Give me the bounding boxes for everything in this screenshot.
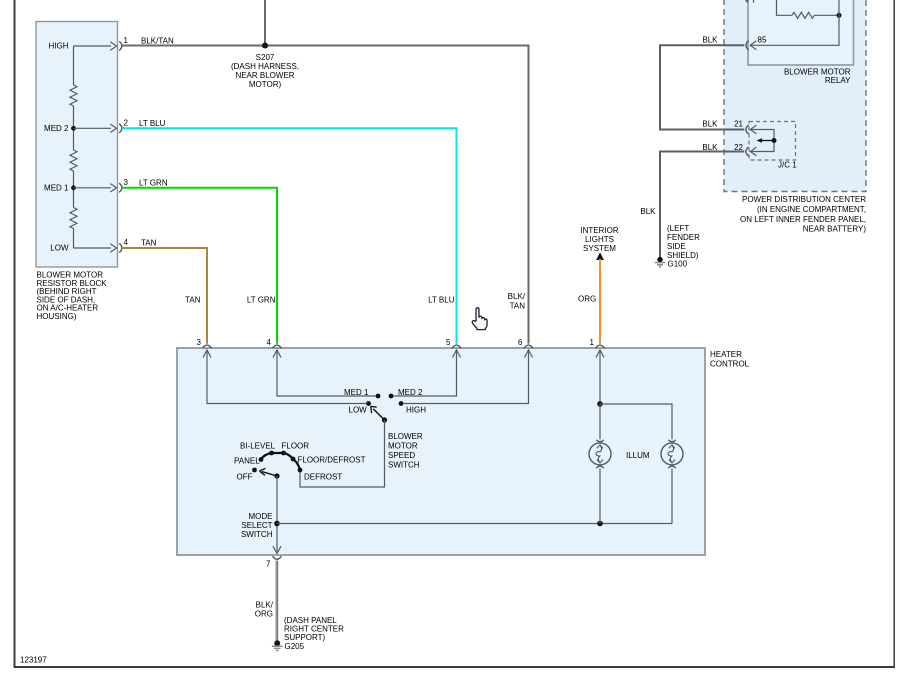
svg-text:2: 2 — [124, 119, 129, 128]
svg-text:BLK: BLK — [640, 207, 656, 216]
wire BLK from J/C 1 pin 22 to ground G100 — [660, 152, 744, 258]
wire BLK from relay pin 85 to J/C 1 pin 21 — [660, 45, 744, 129]
svg-text:ORG: ORG — [255, 610, 273, 619]
svg-text:85: 85 — [758, 36, 767, 45]
svg-text:5: 5 — [446, 338, 451, 347]
ground G100 — [655, 257, 665, 267]
wire mode select pivot down to pin 7 — [276, 476, 278, 552]
power distribution center caption — [740, 195, 866, 234]
pin 5 of heater control — [446, 338, 461, 358]
blower motor resistor block caption — [37, 271, 108, 322]
mode select blade — [262, 472, 277, 476]
contact PANEL — [259, 457, 264, 462]
wire relay junction down to pin 85 — [750, 0, 839, 45]
junction connector J/C 1 dashed box — [749, 122, 796, 161]
pin 1 of heater control — [590, 338, 605, 358]
svg-text:123197: 123197 — [20, 656, 47, 665]
resistor R3 (MED 1 to LOW) — [70, 208, 77, 229]
svg-text:4: 4 — [267, 338, 272, 347]
svg-text:HIGH: HIGH — [406, 406, 426, 415]
svg-text:LIGHTS: LIGHTS — [585, 235, 614, 244]
svg-text:HOUSING): HOUSING) — [37, 312, 77, 321]
svg-text:3: 3 — [124, 178, 129, 187]
contact FLOOR/DEFROST — [291, 457, 296, 462]
wire TAN from resistor block pin 4 to heater control pin 3 — [122, 248, 207, 344]
svg-text:MED 2: MED 2 — [44, 124, 69, 133]
svg-text:MODE: MODE — [249, 512, 273, 521]
svg-text:SYSTEM: SYSTEM — [583, 244, 616, 253]
mode select arc — [261, 453, 300, 470]
wire speed switch pivot to DEFROST contact — [300, 420, 385, 487]
contact MED 2 — [389, 394, 394, 399]
svg-text:LOW: LOW — [50, 244, 69, 253]
svg-text:(LEFT: (LEFT — [667, 224, 689, 233]
svg-text:BLK/: BLK/ — [508, 292, 526, 301]
svg-text:SUPPORT): SUPPORT) — [284, 633, 326, 642]
label G205 caption — [284, 616, 344, 651]
contact HIGH — [399, 401, 404, 406]
ground G205 — [272, 640, 283, 650]
svg-text:HIGH: HIGH — [49, 42, 69, 51]
svg-text:3: 3 — [197, 338, 202, 347]
svg-text:S207: S207 — [256, 53, 275, 62]
svg-text:G205: G205 — [285, 642, 305, 651]
wire lamp feed branches — [600, 404, 672, 439]
blower motor speed switch — [344, 388, 426, 470]
svg-text:BLOWER: BLOWER — [388, 432, 423, 441]
svg-text:LT GRN: LT GRN — [247, 296, 276, 305]
illumination lamp right — [661, 440, 683, 468]
wire BLK/ORG from pin 7 to ground G205 — [276, 561, 277, 641]
svg-text:TAN: TAN — [141, 239, 157, 248]
blower motor relay caption — [784, 68, 851, 86]
svg-text:SWITCH: SWITCH — [241, 530, 273, 539]
svg-text:SELECT: SELECT — [241, 521, 272, 530]
svg-text:4: 4 — [124, 238, 129, 247]
wire BLK/TAN from resistor block pin 1 to heater control pin 6 — [122, 46, 529, 344]
label HEATER CONTROL — [710, 350, 750, 369]
svg-text:BLK: BLK — [702, 36, 718, 45]
wire ORG from heater control pin 1 up to interior lights — [599, 259, 601, 344]
speed switch pivot — [382, 417, 387, 422]
svg-text:1: 1 — [590, 338, 595, 347]
svg-text:BI-LEVEL: BI-LEVEL — [240, 442, 276, 451]
label S207 caption — [231, 53, 299, 89]
pin 3 of heater control — [197, 338, 212, 358]
mode select pivot — [274, 473, 279, 478]
blower motor resistor block — [36, 22, 118, 268]
svg-text:SIDE: SIDE — [667, 242, 686, 251]
wire pin 5 to MED 2 contact — [393, 351, 457, 397]
pin 85 of relay — [746, 36, 767, 50]
relay top edge connector stub — [746, 0, 753, 3]
mode select switch — [234, 442, 366, 540]
resistor inside relay — [792, 12, 814, 18]
arrow to other circuits inside J/C 1 — [756, 138, 774, 143]
svg-text:G100: G100 — [668, 260, 688, 269]
svg-text:MED 2: MED 2 — [398, 388, 423, 397]
power distribution center dashed box — [724, 0, 866, 192]
svg-text:BLK: BLK — [702, 120, 718, 129]
label BLK/ORG — [255, 601, 274, 619]
svg-text:INTERIOR: INTERIOR — [580, 226, 618, 235]
svg-text:6: 6 — [518, 338, 523, 347]
contact OFF — [252, 468, 257, 473]
svg-text:PANEL: PANEL — [234, 457, 260, 466]
contact MED 1 — [376, 394, 381, 399]
junction at lamp feed — [597, 401, 603, 407]
svg-text:ON LEFT INNER FENDER PANEL,: ON LEFT INNER FENDER PANEL, — [740, 215, 866, 224]
wire illumination return bus — [277, 523, 672, 525]
svg-text:BLK/: BLK/ — [256, 601, 274, 610]
heater control box — [177, 348, 705, 555]
svg-text:21: 21 — [734, 120, 743, 129]
relay coil lead (cut off at top) — [777, 0, 793, 15]
pin MED 1 (3) — [44, 178, 128, 193]
svg-text:J/C 1: J/C 1 — [778, 161, 797, 170]
illumination lamp left — [589, 440, 611, 468]
svg-text:SWITCH: SWITCH — [388, 461, 420, 470]
svg-text:FLOOR: FLOOR — [282, 442, 310, 451]
svg-text:LT BLU: LT BLU — [428, 296, 455, 305]
svg-text:DEFROST: DEFROST — [304, 473, 342, 482]
svg-text:BLK/TAN: BLK/TAN — [141, 37, 174, 46]
wire lamps down to bus — [600, 469, 672, 524]
svg-text:CONTROL: CONTROL — [710, 360, 750, 369]
svg-text:(DASH HARNESS,: (DASH HARNESS, — [231, 62, 299, 71]
wire pin 3 to LOW contact — [207, 351, 366, 404]
label INTERIOR LIGHTS SYSTEM — [580, 226, 618, 253]
contact LOW — [366, 401, 371, 406]
junction MED 2 — [71, 126, 76, 131]
pin LOW (4) — [50, 238, 128, 253]
svg-text:LT GRN: LT GRN — [139, 179, 168, 188]
svg-text:MOTOR): MOTOR) — [249, 80, 282, 89]
wire pin 1 down to lamps — [599, 351, 601, 405]
svg-text:FENDER: FENDER — [667, 233, 700, 242]
speed switch blade — [373, 409, 384, 420]
svg-text:OFF: OFF — [237, 473, 253, 482]
svg-text:POWER DISTRIBUTION CENTER: POWER DISTRIBUTION CENTER — [742, 195, 866, 204]
svg-text:MOTOR: MOTOR — [388, 442, 418, 451]
svg-text:HEATER: HEATER — [710, 350, 742, 359]
wire stub up from splice S207 — [264, 0, 266, 46]
svg-text:RELAY: RELAY — [825, 76, 851, 85]
mouse cursor — [472, 308, 487, 330]
svg-text:LT BLU: LT BLU — [139, 119, 166, 128]
pin HIGH (1) — [49, 36, 129, 51]
blower motor relay box — [748, 0, 854, 65]
junction in relay — [837, 13, 842, 18]
wire pin 4 to MED 1 contact — [277, 351, 376, 397]
pin 6 of heater control — [518, 338, 533, 358]
svg-text:SPEED: SPEED — [388, 451, 415, 460]
svg-text:TAN: TAN — [185, 296, 201, 305]
pin 7 of heater control — [266, 546, 281, 568]
svg-text:MED 1: MED 1 — [344, 388, 369, 397]
label G100 caption — [667, 224, 700, 269]
contact FLOOR — [281, 451, 286, 456]
svg-text:FLOOR/DEFROST: FLOOR/DEFROST — [298, 456, 366, 465]
svg-text:7: 7 — [266, 560, 271, 569]
wire from resistor to junction — [814, 14, 839, 16]
svg-text:ILLUM: ILLUM — [626, 451, 650, 460]
svg-text:1: 1 — [124, 36, 129, 45]
junction at lamp bus — [597, 521, 603, 527]
contact BI-LEVEL — [269, 451, 274, 456]
pin 21 of J/C 1 — [734, 120, 756, 135]
svg-text:NEAR BLOWER: NEAR BLOWER — [235, 71, 294, 80]
svg-text:MED 1: MED 1 — [44, 184, 69, 193]
resistor R1 (HIGH to MED 2) — [70, 85, 77, 106]
wire LT BLU from resistor block pin 2 to heater control pin 5 — [122, 128, 457, 343]
svg-text:NEAR BATTERY): NEAR BATTERY) — [803, 225, 867, 234]
svg-text:LOW: LOW — [349, 406, 368, 415]
svg-text:ORG: ORG — [578, 295, 596, 304]
contact DEFROST — [298, 468, 303, 473]
wire internal bus of resistor block — [73, 46, 75, 248]
resistor R2 (MED 2 to MED 1) — [70, 150, 77, 171]
junction at mode select wire — [274, 521, 280, 527]
wire pin 6 to HIGH contact — [404, 351, 529, 404]
wire LT GRN from resistor block pin 3 to heater control pin 4 — [122, 188, 277, 344]
junction inside J/C 1 — [772, 138, 777, 143]
splice S207 — [262, 43, 268, 49]
junction MED 1 — [71, 185, 76, 190]
pin 4 of heater control — [267, 338, 282, 358]
label BLK/TAN near heater pin 6 — [508, 292, 526, 311]
svg-text:(IN ENGINE COMPARTMENT,: (IN ENGINE COMPARTMENT, — [757, 205, 866, 214]
svg-text:TAN: TAN — [510, 302, 526, 311]
arrow to interior lights system — [596, 252, 604, 260]
pin MED 2 (2) — [44, 119, 128, 134]
pin 22 of J/C 1 — [734, 143, 756, 156]
wire inside J/C 1 linking pins 21 and 22 — [750, 130, 774, 152]
